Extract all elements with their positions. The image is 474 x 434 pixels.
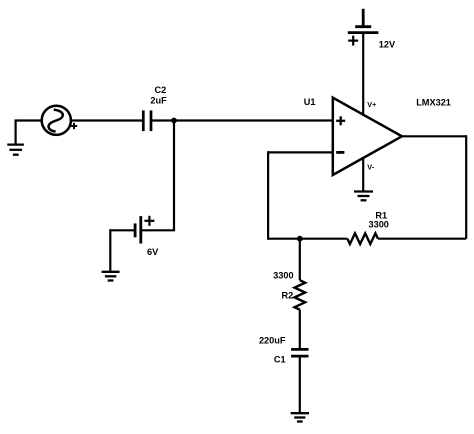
wire: R1 to feedback node and op-amp minus input — [268, 151, 347, 240]
svg-text:LMX321: LMX321 — [416, 98, 451, 108]
wire: R2 to C1 — [299, 310, 301, 350]
ground (AC source) — [7, 145, 24, 155]
wire: op-amp V- to ground — [362, 158, 364, 192]
plus label of 6V battery — [144, 216, 154, 226]
capacitor C1 — [291, 349, 308, 356]
wire: left ground stem to AC source — [16, 119, 42, 144]
wire: 12V battery to op-amp V+ — [362, 33, 364, 116]
wire: op-amp output to right rail — [378, 135, 466, 239]
svg-text:R2: R2 — [281, 290, 293, 300]
ground (op-amp V-) — [354, 192, 373, 201]
battery B2 12V — [348, 9, 379, 33]
plus label of AC source — [71, 123, 77, 129]
svg-text:220uF: 220uF — [259, 336, 286, 346]
battery B1 6V — [135, 216, 141, 243]
svg-text:V+: V+ — [367, 100, 376, 109]
minus input marker — [336, 151, 344, 154]
resistor R1 — [347, 233, 378, 244]
svg-text:U1: U1 — [304, 97, 316, 107]
wire: C2 to op-amp + input — [152, 119, 333, 121]
resistor R2 — [294, 280, 305, 309]
capacitor C2 — [143, 110, 151, 131]
ground (C1) — [291, 413, 309, 421]
plus input marker — [336, 116, 345, 125]
ground (6V battery) — [102, 272, 120, 281]
svg-text:12V: 12V — [379, 40, 396, 50]
AC source V1 — [42, 106, 71, 135]
wire: junction down to 6V battery — [141, 121, 175, 231]
op-amp U1 — [333, 98, 402, 175]
svg-text:2uF: 2uF — [150, 95, 167, 105]
wire: C1 to ground — [299, 356, 301, 413]
svg-text:3300: 3300 — [273, 271, 293, 281]
node junction at C2 / battery branch — [171, 118, 177, 124]
node junction at R1 / R2 — [297, 236, 303, 242]
svg-text:C1: C1 — [274, 355, 286, 365]
wire: AC source to C2 — [71, 119, 142, 121]
plus label of 12V battery — [348, 36, 358, 46]
svg-text:V-: V- — [367, 162, 374, 171]
svg-text:C2: C2 — [155, 85, 167, 95]
svg-text:6V: 6V — [147, 247, 159, 257]
wire: node down to R2 — [299, 239, 301, 281]
wire: 6V battery to ground — [110, 229, 135, 271]
svg-text:3300: 3300 — [368, 219, 388, 229]
